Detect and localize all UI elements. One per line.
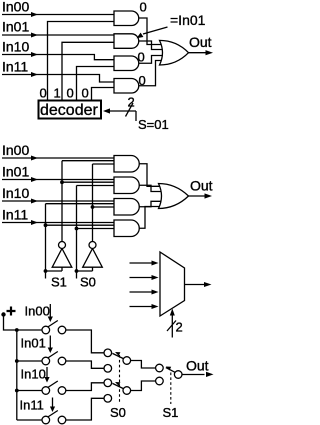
- wire In11 top: [2, 75, 116, 83]
- junction dot row2: [15, 359, 19, 363]
- arrowhead control S0 lower: [115, 382, 120, 386]
- svg-text:In01: In01: [2, 19, 29, 35]
- arrowhead Out mid: [205, 193, 213, 198]
- wire S0 to U9: [77, 228, 117, 230]
- or-gate U5: [160, 40, 189, 65]
- arrowhead mux input 0: [152, 261, 159, 266]
- and-gate U2: [114, 34, 139, 49]
- wire row2 to S0 contact: [66, 361, 105, 368]
- switch SW1 In00: [42, 321, 66, 334]
- wire S1 branch to inverter input: [46, 267, 63, 278]
- svg-text:In11: In11: [2, 207, 28, 223]
- switch S0 pole 1: [123, 357, 131, 365]
- svg-text:In00: In00: [2, 142, 29, 158]
- arrowhead In00 top: [31, 12, 38, 17]
- and-gate U3: [114, 56, 139, 71]
- wire In10 mid: [2, 200, 116, 202]
- svg-text:0: 0: [140, 0, 147, 15]
- switch arm S0 upper: [112, 353, 123, 358]
- wire U7 output to OR U10: [139, 185, 163, 191]
- and-gate U8: [114, 199, 139, 216]
- switch arm S0 lower: [112, 383, 123, 388]
- svg-text:1: 1: [54, 86, 61, 101]
- junction dot S1 U9: [44, 223, 48, 227]
- switch SW4 In11: [42, 411, 66, 424]
- mux trapezoid symbol: [160, 252, 185, 316]
- wire row1 to S0 contact: [66, 330, 105, 353]
- or-gate U10: [159, 184, 189, 209]
- svg-text:In10: In10: [21, 367, 46, 382]
- wire bus to row3: [17, 390, 43, 392]
- wire U1 output to OR gate U5: [139, 18, 164, 45]
- svg-text:S1: S1: [163, 405, 179, 420]
- wire decoder S input: [110, 111, 137, 121]
- switch S0 pole 2: [123, 387, 131, 395]
- arrowhead decoder S input: [103, 108, 110, 113]
- svg-text:decoder: decoder: [40, 102, 98, 119]
- svg-text:0: 0: [139, 73, 146, 88]
- switch S0 contact 4: [104, 395, 112, 403]
- svg-text:In01: In01: [21, 336, 46, 351]
- svg-text:In11: In11: [2, 59, 28, 75]
- switch S0 contact 3: [104, 379, 112, 387]
- wire S1bar to U6: [62, 160, 116, 162]
- svg-text:0: 0: [40, 86, 47, 101]
- junction dot S0bar U8: [91, 205, 95, 209]
- wire mux input 2: [130, 291, 154, 293]
- dashed control line S0: [119, 355, 121, 404]
- and-gate U4: [114, 79, 139, 94]
- and-gate U7: [114, 177, 139, 194]
- switch S1 contact 1: [156, 364, 164, 372]
- svg-text:2: 2: [176, 320, 183, 335]
- control arrow In01: [48, 336, 53, 354]
- svg-text:Out: Out: [190, 178, 213, 194]
- arrowhead control S1: [166, 367, 171, 371]
- wire S0bar vertical: [92, 164, 94, 242]
- switch S1 contact 2: [156, 377, 164, 385]
- arrowhead mux input 2: [152, 290, 159, 295]
- wire U8 output to OR U10: [139, 201, 163, 206]
- wire OR U5 output Out: [189, 52, 207, 54]
- bus slash mux select: [167, 321, 176, 332]
- arrowhead In01 mid: [31, 177, 38, 182]
- svg-text:In01: In01: [2, 164, 29, 180]
- switch SW3 In10: [42, 381, 66, 394]
- svg-text:In11: In11: [20, 398, 44, 413]
- svg-text:In00: In00: [2, 0, 29, 15]
- svg-text:2: 2: [128, 95, 135, 110]
- dashed control line S1: [170, 373, 172, 405]
- svg-text:In10: In10: [2, 185, 29, 201]
- arrowhead mux output: [204, 282, 212, 287]
- wire S1 pole to Out: [182, 374, 205, 376]
- wire S0bar to U8: [93, 206, 117, 208]
- wire S1bar to U7: [62, 181, 116, 183]
- inverter X2 S0: [83, 242, 103, 268]
- svg-text:0: 0: [138, 50, 145, 65]
- wire mux output: [185, 284, 205, 286]
- svg-text:S1: S1: [51, 275, 67, 290]
- wire U6 output to OR U10: [139, 164, 163, 187]
- and-gate U6: [114, 156, 139, 173]
- wire mux select: [171, 314, 173, 338]
- junction dot S0 branch: [75, 269, 79, 273]
- node supply dot: [1, 312, 5, 316]
- wire U4 output to OR gate U5: [139, 61, 164, 86]
- wire In01 top: [2, 34, 116, 36]
- decoder box: [39, 101, 102, 119]
- wire decoder output 3 to U4: [92, 88, 117, 100]
- arrowhead mux input 1: [152, 275, 159, 280]
- wire row3 to S0 contact: [66, 383, 105, 391]
- switch S0 contact 1: [104, 349, 112, 357]
- wire bus vertical left: [16, 330, 18, 420]
- arrowhead In11 top: [31, 72, 38, 77]
- svg-text:S0: S0: [80, 275, 96, 290]
- svg-text:0: 0: [67, 86, 74, 101]
- wire U9 output to OR U10: [139, 207, 163, 229]
- control arrow In11: [50, 398, 55, 413]
- arrowhead In01 top: [31, 33, 38, 38]
- and-gate U1: [114, 11, 139, 26]
- wire mux input 3: [130, 306, 154, 308]
- wire decoder output 2 to U3: [77, 67, 117, 100]
- wire bus to row4: [17, 419, 43, 421]
- plus supply symbol: [7, 307, 16, 316]
- switch S1 pole: [174, 371, 182, 379]
- wire S1 to U8: [46, 203, 117, 205]
- control arrow In10: [44, 367, 49, 383]
- junction dot row1: [15, 328, 19, 332]
- wire mux input 0: [130, 262, 154, 264]
- and-gate U9: [114, 220, 139, 237]
- svg-text:S0: S0: [110, 405, 126, 420]
- wire decoder output 0 to U1: [48, 22, 117, 100]
- wire S1 vertical: [45, 204, 47, 271]
- wire bus to row2: [17, 360, 43, 362]
- arrowhead In00 mid: [31, 156, 38, 161]
- arrow =In01 to U2 output: [143, 27, 168, 34]
- wire S0 branch to inverter input: [77, 267, 93, 278]
- junction dot row3: [15, 389, 19, 393]
- wire OR U10 output Out: [189, 195, 206, 197]
- junction dot S0 U9: [75, 227, 79, 231]
- wire S0 pole1 to S1 contact: [130, 361, 156, 369]
- wire row4 to S0 contact: [66, 398, 105, 420]
- svg-text:In10: In10: [2, 39, 29, 55]
- wire In10 top: [2, 55, 116, 60]
- wire S1 to U9: [46, 224, 117, 226]
- switch SW2 In01: [42, 352, 66, 365]
- arrowhead mux input 3: [152, 304, 159, 309]
- junction dot S1 branch: [44, 269, 48, 273]
- arrowhead In10 top: [31, 52, 38, 57]
- switch S0 contact 2: [104, 365, 112, 373]
- arrowhead In10 mid: [31, 199, 38, 204]
- wire supply node to row1: [4, 315, 43, 331]
- svg-text:S=01: S=01: [138, 117, 169, 132]
- wire U3 output to OR gate U5: [139, 56, 164, 64]
- bus slash decoder input: [126, 103, 134, 117]
- svg-text:Out: Out: [189, 34, 212, 50]
- arrowhead Out top: [206, 50, 214, 55]
- wire S0bar to U6: [93, 163, 117, 165]
- wire In11 mid: [2, 222, 116, 224]
- wire decoder output 1 to U2: [62, 42, 116, 100]
- wire S1bar vertical: [61, 161, 63, 242]
- wire U2 output to OR gate U5: [139, 41, 164, 50]
- wire mux input 1: [130, 277, 154, 279]
- arrowhead control S0 upper: [115, 352, 120, 356]
- switch arm S1: [166, 368, 176, 373]
- junction dot S1bar U7: [60, 180, 64, 184]
- wire S0 pole2 to S1 contact: [130, 381, 156, 391]
- wire In00 mid: [2, 157, 116, 159]
- svg-text:In00: In00: [25, 304, 50, 319]
- svg-text:0: 0: [82, 86, 89, 101]
- arrowhead mux select: [170, 309, 175, 316]
- svg-text:Out: Out: [186, 358, 209, 374]
- wire In00 top: [2, 14, 116, 16]
- wire In01 mid: [2, 179, 116, 181]
- wire S0 to U7: [77, 185, 117, 187]
- svg-text:=In01: =In01: [170, 12, 206, 28]
- wire S0 vertical: [76, 186, 78, 272]
- control arrow In00: [48, 304, 53, 322]
- arrowhead In11 mid: [31, 220, 38, 225]
- inverter X1 S1: [52, 242, 72, 268]
- arrowhead Out bottom: [206, 372, 214, 377]
